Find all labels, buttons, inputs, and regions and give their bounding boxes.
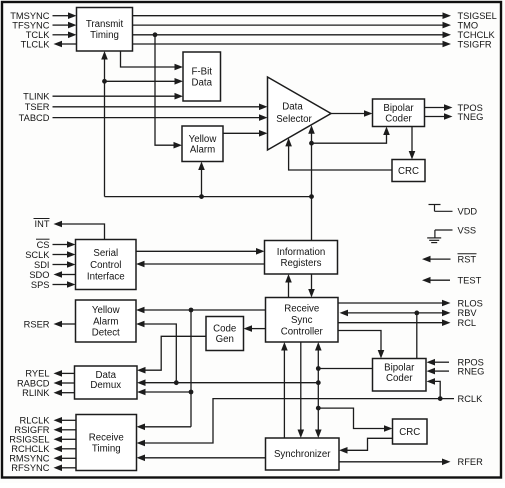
node RCLK pin label	[458, 394, 484, 404]
wire RCHCLK output	[54, 446, 77, 453]
svg-text:RCL: RCL	[458, 318, 477, 328]
block CRC (receive)	[393, 419, 428, 444]
node TSIGSEL pin label	[458, 11, 497, 21]
node RMSYNC pin label	[9, 454, 50, 464]
node TPOS pin label	[458, 103, 483, 113]
svg-text:Sync: Sync	[291, 315, 313, 326]
node RNEG pin label	[458, 366, 485, 376]
wire SCLK input	[53, 251, 76, 258]
wire vertical x=284.4 Synchronizer to RSC	[281, 342, 288, 438]
wire feedback vertical to Transmit Timing	[101, 51, 108, 197]
wire TCHCLK branch to Yellow Alarm	[155, 35, 182, 149]
node TCHCLK pin label	[458, 30, 496, 40]
svg-text:Serial: Serial	[93, 248, 118, 259]
block Synchronizer	[266, 438, 340, 470]
svg-text:Coder: Coder	[385, 113, 412, 124]
svg-text:Coder: Coder	[386, 373, 413, 384]
wire RBV net to Bipolar Coder 2 top	[416, 313, 418, 359]
block Yellow Alarm	[182, 126, 223, 162]
block Data Selector (mux)	[268, 77, 332, 150]
junction central vertical branch	[309, 141, 314, 146]
wire Information Registers to Serial Control Interface	[136, 261, 265, 268]
junction on Yellow Alarm Detect net	[189, 308, 194, 313]
svg-text:SCLK: SCLK	[25, 250, 50, 260]
node VSS pin label	[458, 225, 477, 235]
block Transmit Timing U1	[77, 8, 133, 52]
junction RBV net	[414, 311, 419, 316]
junction RCLK branch	[438, 396, 443, 401]
svg-text:Controller: Controller	[281, 326, 324, 337]
svg-text:RSIGFR: RSIGFR	[14, 425, 49, 435]
wire TCLK input	[53, 32, 77, 39]
wire Data Selector to Bipolar Coder	[331, 110, 373, 117]
wire TLINK to F-Bit Data	[53, 93, 184, 100]
node RBV pin label	[458, 308, 478, 318]
wire branch to F-Bit Data input 2	[105, 78, 184, 85]
node CS pin label	[36, 239, 50, 250]
wire RBV net	[340, 310, 451, 317]
junction long net end	[309, 194, 314, 199]
wire branch up to Bipolar Coder bottom	[312, 127, 390, 144]
junction on feedback vertical	[102, 79, 107, 84]
wire RST input	[422, 256, 451, 263]
svg-text:Timing: Timing	[90, 30, 119, 41]
node RLINK pin label	[22, 388, 50, 398]
svg-text:RCHCLK: RCHCLK	[11, 444, 50, 454]
wire RCL output	[338, 319, 451, 326]
node TFSYNC pin label	[12, 20, 49, 30]
wire TABCD to Data Selector	[53, 114, 268, 121]
svg-text:Receive: Receive	[89, 433, 124, 444]
wire RLINK output	[54, 389, 75, 396]
svg-text:RLINK: RLINK	[22, 388, 50, 398]
wire TEST input	[422, 277, 450, 284]
node VDD pin label	[458, 207, 478, 217]
svg-text:SDI: SDI	[34, 260, 50, 270]
wire TSER to Data Selector	[53, 104, 268, 111]
svg-text:Bipolar: Bipolar	[383, 103, 414, 114]
wire TSIGSEL net	[133, 12, 452, 19]
svg-text:Receive: Receive	[284, 304, 319, 315]
wire RSIGFR output	[54, 427, 77, 434]
block F-Bit Data	[183, 52, 221, 101]
svg-text:RFSYNC: RFSYNC	[11, 463, 50, 473]
node SDO pin label	[29, 270, 49, 280]
node SCLK pin label	[25, 250, 50, 260]
svg-text:RLOS: RLOS	[458, 298, 483, 308]
svg-text:TLINK: TLINK	[23, 92, 50, 102]
svg-text:CRC: CRC	[399, 427, 420, 438]
svg-text:TEST: TEST	[458, 276, 482, 286]
wire Receive Sync Controller to Bipolar Coder 2	[338, 331, 384, 359]
svg-text:TABCD: TABCD	[19, 113, 50, 123]
node TSIGFR pin label	[458, 39, 492, 49]
wire vertical branch x=191	[190, 310, 192, 427]
wire RYEL output	[54, 370, 75, 377]
block CRC (transmit)	[392, 160, 425, 182]
svg-text:Interface: Interface	[87, 271, 125, 282]
svg-text:RST: RST	[458, 254, 477, 264]
svg-text:RCLK: RCLK	[458, 394, 484, 404]
wire Data Demux input 2 net	[137, 379, 318, 386]
node RYEL pin label	[25, 369, 49, 379]
svg-text:RLCLK: RLCLK	[20, 416, 51, 426]
block Serial Control Interface	[76, 240, 137, 290]
block Yellow Alarm Detect	[76, 300, 137, 342]
block Receive Timing	[76, 415, 137, 471]
node TSER pin label	[25, 102, 50, 112]
wire RFER output	[339, 459, 451, 466]
wire branch to Data Demux input 3	[137, 389, 191, 396]
node TMSYNC pin label	[10, 11, 50, 21]
svg-text:TSIGFR: TSIGFR	[458, 39, 492, 49]
wire branch up to Yellow Alarm bottom	[198, 162, 205, 197]
wire RABCD output	[54, 380, 75, 387]
node TABCD pin label	[19, 113, 50, 123]
wire CRC to Data Selector	[285, 138, 392, 170]
junction long net / Yellow Alarm branch	[199, 194, 204, 199]
wire SDI input	[53, 261, 76, 268]
svg-text:Bipolar: Bipolar	[384, 362, 415, 373]
node RCL pin label	[458, 318, 477, 328]
wire Serial Control Interface to Information Registers	[136, 248, 265, 255]
wire SDO output	[54, 271, 76, 278]
junction demux net / YAD branch	[174, 380, 179, 385]
wire RLCLK output	[54, 417, 77, 424]
svg-text:RMSYNC: RMSYNC	[9, 454, 50, 464]
node RST pin label	[458, 254, 477, 265]
wire TMO net	[133, 22, 452, 29]
wire long net to Receive side	[105, 196, 312, 198]
wire RCLK net	[137, 399, 455, 447]
wire vertical x=318.3 RSC-Synchronizer	[315, 342, 322, 438]
svg-text:Code: Code	[213, 324, 236, 335]
svg-text:Yellow: Yellow	[189, 134, 218, 145]
junction demux net end	[316, 380, 321, 385]
junction branch to Data Demux	[189, 390, 194, 395]
svg-text:TLCLK: TLCLK	[21, 39, 51, 49]
wire Synchronizer to Receive Timing	[137, 455, 266, 462]
node TCLK pin label	[26, 30, 51, 40]
node RLOS pin label	[458, 298, 483, 308]
wire Bipolar Coder to CRC	[409, 127, 416, 160]
node SPS pin label	[31, 280, 50, 290]
svg-text:Data: Data	[282, 101, 303, 112]
node RPOS pin label	[458, 358, 484, 368]
junction on TCHCLK net	[153, 32, 158, 37]
wire RCLK branch to Bipolar Coder 2	[427, 378, 441, 399]
svg-text:TFSYNC: TFSYNC	[12, 20, 49, 30]
node TMO pin label	[458, 20, 479, 30]
svg-text:RSIGSEL: RSIGSEL	[9, 435, 49, 445]
svg-text:Detect: Detect	[92, 328, 120, 339]
svg-text:VSS: VSS	[458, 225, 477, 235]
svg-text:RFER: RFER	[458, 457, 484, 467]
wire TLCLK output	[54, 41, 77, 48]
wire TPOS output	[425, 104, 453, 111]
junction BC2 output on vertical	[316, 366, 321, 371]
svg-text:RABCD: RABCD	[17, 378, 50, 388]
node TLCLK pin label	[21, 39, 51, 49]
svg-text:CRC: CRC	[398, 166, 419, 177]
wire Receive Sync Controller to Yellow Alarm Detect	[136, 307, 266, 314]
wire vertical x=300.8 RSC to Synchronizer	[298, 342, 305, 438]
node RSIGSEL pin label	[9, 435, 49, 445]
wire Receive Sync Controller to Information Registers	[285, 274, 292, 298]
svg-text:SDO: SDO	[29, 270, 49, 280]
wire Code Gen to Data Demux	[137, 336, 206, 373]
ground symbol VSS	[427, 230, 452, 243]
svg-text:TMO: TMO	[458, 20, 479, 30]
wire branch to CRC 2	[318, 408, 392, 432]
wire CS input	[53, 241, 76, 248]
node RFSYNC pin label	[11, 463, 50, 473]
node RLCLK pin label	[20, 416, 51, 426]
wire Yellow Alarm to Data Selector	[223, 130, 268, 137]
svg-text:Alarm: Alarm	[190, 144, 215, 155]
svg-text:Synchronizer: Synchronizer	[274, 449, 331, 460]
wire TNEG output	[425, 113, 453, 120]
wire RSER output	[54, 321, 76, 328]
block Bipolar Coder (transmit)	[373, 99, 425, 127]
wire RNEG input	[427, 368, 450, 375]
wire Bipolar Coder 2 to Receive Sync Controller	[318, 368, 372, 370]
svg-text:RNEG: RNEG	[458, 366, 485, 376]
wire Yellow Alarm Detect input 2	[136, 321, 176, 383]
svg-text:RSER: RSER	[24, 319, 50, 329]
svg-text:F-Bit: F-Bit	[192, 66, 213, 77]
node RFER pin label	[458, 457, 484, 467]
svg-text:Yellow: Yellow	[92, 305, 121, 316]
wire Receive Sync Controller to Code Gen	[244, 325, 266, 332]
svg-text:Registers: Registers	[281, 258, 322, 269]
wire TMSYNC input	[53, 12, 77, 19]
wire INT output from Serial Control Interface	[54, 221, 105, 240]
wire RMSYNC output	[54, 455, 77, 462]
wire Transmit Timing to F-Bit Data	[121, 51, 184, 70]
svg-text:TNEG: TNEG	[458, 112, 484, 122]
svg-text:RBV: RBV	[458, 308, 478, 318]
block Code Gen	[206, 317, 244, 351]
node RSIGFR pin label	[14, 425, 49, 435]
svg-text:Timing: Timing	[92, 443, 121, 454]
svg-text:INT: INT	[35, 219, 50, 229]
svg-text:Information: Information	[277, 247, 325, 258]
svg-text:RYEL: RYEL	[25, 369, 49, 379]
power symbol VDD	[429, 205, 453, 212]
svg-text:Demux: Demux	[90, 380, 121, 391]
node SDI pin label	[34, 260, 50, 270]
wire central vertical to Data Selector and Information Registers	[308, 125, 315, 240]
svg-text:SPS: SPS	[31, 280, 50, 290]
node RSER pin label	[24, 319, 50, 329]
wire RLOS output	[338, 300, 451, 307]
block Information Registers	[265, 241, 338, 275]
wire TFSYNC input	[53, 22, 77, 29]
wire CRC 2 to Synchronizer	[339, 438, 393, 453]
wire RPOS input	[427, 359, 450, 366]
wire RSIGSEL output	[54, 436, 77, 443]
svg-text:VDD: VDD	[458, 207, 478, 217]
svg-text:TSER: TSER	[25, 102, 50, 112]
block Receive Sync Controller	[266, 298, 339, 343]
svg-text:Alarm: Alarm	[93, 316, 118, 327]
svg-text:Transmit: Transmit	[86, 19, 124, 30]
wire RFSYNC output	[54, 465, 77, 472]
svg-text:CS: CS	[37, 240, 50, 250]
node TNEG pin label	[458, 112, 484, 122]
svg-text:Data: Data	[192, 77, 213, 88]
junction on x=318.3 CRC branch	[316, 406, 321, 411]
node TLINK pin label	[23, 92, 50, 102]
node RCHCLK pin label	[11, 444, 50, 454]
svg-text:Selector: Selector	[276, 114, 312, 125]
block Data Demux	[75, 366, 138, 399]
node RABCD pin label	[17, 378, 50, 388]
wire SPS input	[53, 281, 76, 288]
node TEST pin label	[458, 276, 482, 286]
wire TSIGFR net	[133, 41, 452, 48]
svg-text:Gen: Gen	[216, 334, 234, 345]
wire branch to Receive Timing input 1	[137, 424, 192, 431]
block Bipolar Coder (receive)	[373, 359, 427, 392]
node INT pin label	[34, 219, 50, 230]
wire TCHCLK net	[133, 32, 452, 39]
wire Information Registers to Receive Sync Controller	[308, 274, 315, 298]
svg-text:Control: Control	[90, 260, 121, 271]
